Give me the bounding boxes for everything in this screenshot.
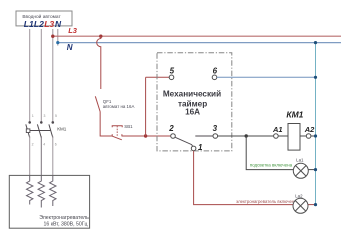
svg-text:16 кВт, 380В, 50Гц: 16 кВт, 380В, 50Гц	[44, 221, 88, 227]
svg-text:КМ1: КМ1	[57, 127, 67, 132]
svg-text:4: 4	[43, 143, 45, 147]
svg-text:La1: La1	[296, 157, 304, 162]
svg-text:5: 5	[55, 114, 57, 118]
svg-text:2: 2	[168, 124, 174, 133]
svg-text:N: N	[55, 19, 62, 29]
svg-text:A2: A2	[304, 125, 315, 134]
svg-text:электронагреватель включен: электронагреватель включен	[236, 199, 295, 204]
svg-text:6: 6	[55, 143, 57, 147]
svg-text:КМ1: КМ1	[286, 110, 303, 120]
svg-text:автомат на 16А: автомат на 16А	[103, 104, 135, 109]
svg-text:подсветка включена: подсветка включена	[250, 163, 293, 168]
svg-text:Электронагреватель: Электронагреватель	[39, 215, 89, 221]
svg-text:6: 6	[213, 67, 218, 76]
svg-text:3: 3	[213, 124, 218, 133]
svg-text:A1: A1	[272, 125, 283, 134]
svg-text:L2: L2	[34, 19, 44, 29]
svg-text:16А: 16А	[185, 108, 200, 117]
svg-text:1: 1	[32, 114, 34, 118]
svg-text:La2: La2	[295, 194, 303, 199]
svg-text:N: N	[67, 43, 73, 52]
svg-text:5: 5	[170, 67, 175, 76]
svg-text:Механический: Механический	[163, 89, 221, 98]
svg-text:L3: L3	[44, 19, 54, 29]
svg-text:3: 3	[44, 114, 46, 118]
svg-text:L3: L3	[68, 26, 78, 35]
svg-text:SB1: SB1	[124, 124, 133, 129]
svg-text:L1: L1	[24, 19, 34, 29]
svg-text:2: 2	[32, 143, 34, 147]
svg-text:1: 1	[198, 143, 203, 152]
